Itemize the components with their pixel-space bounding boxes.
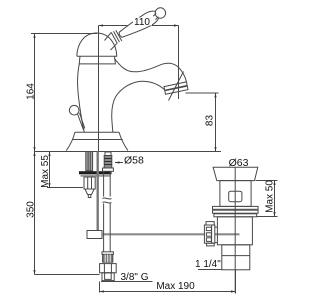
svg-text:Max 55: Max 55 bbox=[40, 155, 51, 188]
svg-text:Max 50: Max 50 bbox=[265, 180, 276, 213]
svg-text:110: 110 bbox=[134, 17, 150, 28]
svg-text:83: 83 bbox=[205, 115, 216, 127]
svg-text:164: 164 bbox=[26, 83, 37, 100]
svg-text:350: 350 bbox=[26, 201, 37, 218]
svg-text:Max 190: Max 190 bbox=[156, 281, 195, 292]
svg-text:1 1/4": 1 1/4" bbox=[195, 259, 221, 270]
svg-text:Ø58: Ø58 bbox=[124, 155, 144, 167]
svg-text:Ø63: Ø63 bbox=[229, 157, 249, 169]
svg-text:3/8" G: 3/8" G bbox=[121, 272, 149, 283]
